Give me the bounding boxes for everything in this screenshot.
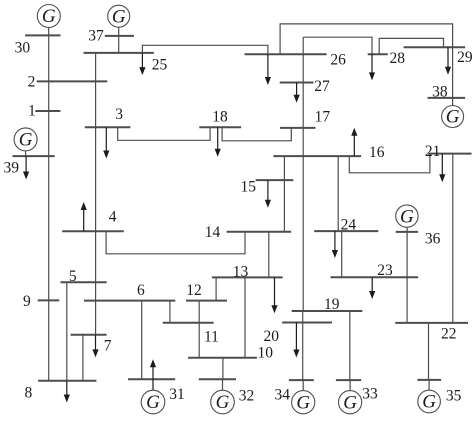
bus 13 — [212, 276, 283, 278]
wire 22-35 — [428, 323, 430, 380]
svg-text:5: 5 — [69, 268, 77, 285]
svg-text:9: 9 — [23, 293, 31, 310]
injection arrow bus 16 — [351, 128, 357, 156]
svg-text:3: 3 — [115, 106, 123, 123]
generator G34 — [292, 391, 315, 414]
load arrow bus 23 — [369, 277, 375, 299]
svg-text:35: 35 — [446, 387, 462, 404]
injection arrow generator31 — [150, 359, 156, 390]
svg-text:G: G — [400, 206, 414, 227]
generator G33 — [339, 391, 362, 414]
wire 10-32 — [222, 358, 224, 380]
svg-text:39: 39 — [4, 159, 20, 176]
wire 21-22 — [452, 154, 454, 323]
bus 23 — [331, 276, 419, 278]
load arrow bus 28 — [369, 54, 375, 80]
bus 10 — [188, 357, 257, 359]
wire 6-31 — [141, 301, 143, 380]
svg-text:G: G — [216, 392, 230, 413]
svg-text:G: G — [446, 107, 460, 128]
svg-text:28: 28 — [390, 50, 406, 67]
bus 17 — [280, 127, 315, 129]
svg-text:26: 26 — [330, 52, 346, 69]
svg-text:13: 13 — [233, 264, 249, 281]
bus 3 — [85, 126, 131, 128]
load arrow bus 21 — [439, 154, 445, 183]
wire 16-15-14 — [283, 156, 285, 232]
bus 33 — [336, 379, 361, 381]
wire 26-29 — [280, 24, 453, 54]
wire 25-2-3-4-5-6-7 trunk — [95, 53, 97, 335]
wire generator32 link — [222, 379, 224, 390]
generator G37 — [108, 5, 130, 27]
wire 7-8 — [82, 335, 84, 381]
bus 37 — [105, 35, 134, 37]
svg-text:34: 34 — [275, 387, 291, 404]
svg-text:10: 10 — [258, 344, 274, 361]
svg-text:4: 4 — [109, 209, 117, 226]
svg-text:31: 31 — [169, 386, 185, 403]
svg-text:17: 17 — [315, 108, 331, 125]
injection arrow bus 4 — [81, 202, 87, 231]
bus 31 — [128, 378, 175, 380]
wire 29-38 — [452, 47, 454, 98]
wire generator39 link — [25, 151, 27, 156]
wire generator33 link — [349, 380, 351, 391]
svg-text:37: 37 — [88, 27, 104, 44]
load arrow bus 26 — [265, 54, 271, 85]
bus 4 — [62, 230, 124, 232]
wire 12-11-10 — [198, 301, 200, 358]
wire 17-18 — [222, 127, 291, 141]
wire 3-18 — [118, 127, 210, 140]
load arrow bus 3 — [103, 127, 109, 158]
wire generator34 link — [302, 380, 304, 391]
svg-text:27: 27 — [314, 78, 330, 95]
svg-text:25: 25 — [152, 56, 168, 73]
bus 24 — [314, 230, 378, 232]
bus 6 — [84, 300, 175, 302]
svg-text:21: 21 — [425, 143, 441, 160]
wire generator35 link — [428, 380, 430, 391]
svg-text:1: 1 — [28, 103, 36, 120]
svg-text:11: 11 — [204, 329, 219, 346]
generator G35 — [418, 390, 441, 413]
bus 1 — [35, 110, 60, 112]
svg-text:2: 2 — [28, 74, 36, 91]
bus 5 — [61, 281, 107, 283]
wire 14-13 — [268, 232, 270, 278]
svg-text:30: 30 — [15, 39, 31, 56]
bus 15 — [256, 179, 294, 181]
svg-text:12: 12 — [186, 282, 202, 299]
svg-text:16: 16 — [369, 144, 385, 161]
wire 26-28 — [302, 37, 304, 54]
load arrow bus 25 — [139, 53, 145, 75]
bus 39 — [13, 155, 55, 157]
bus 20 — [282, 322, 332, 324]
bus 19 — [292, 310, 363, 312]
load arrow bus 7 — [92, 335, 98, 358]
load arrow bus 24 — [332, 231, 338, 258]
svg-text:G: G — [146, 392, 160, 413]
bus 22 — [395, 322, 468, 324]
bus 29 — [404, 46, 466, 48]
svg-text:24: 24 — [341, 216, 357, 233]
wire 19-20-34 — [302, 311, 304, 380]
svg-text:29: 29 — [457, 49, 473, 66]
wire 13-12 — [215, 277, 217, 300]
load arrow bus 39 — [23, 156, 29, 179]
wire 13-10 — [244, 277, 246, 357]
load arrow bus 8 — [64, 381, 70, 403]
wire 5-8 — [66, 282, 68, 381]
wire 19-33 — [349, 311, 351, 380]
generator G32 — [211, 390, 235, 414]
wire 16-24 — [337, 156, 339, 231]
generator G30 — [37, 5, 60, 28]
bus 9 — [38, 299, 60, 301]
svg-text:22: 22 — [441, 326, 457, 343]
svg-text:19: 19 — [324, 296, 340, 313]
bus 30 — [25, 34, 60, 36]
wire 36-23-22 — [406, 232, 408, 323]
bus 25 — [84, 52, 154, 54]
wire 30-2-1-39-9-8 trunk — [48, 27, 50, 381]
load arrow bus 20 — [293, 323, 299, 358]
bus 38 — [428, 97, 466, 99]
bus 12 — [186, 300, 227, 302]
wire generator36 link — [406, 227, 408, 232]
svg-text:18: 18 — [212, 109, 228, 126]
svg-text:33: 33 — [362, 386, 378, 403]
svg-text:20: 20 — [264, 328, 280, 345]
svg-text:36: 36 — [425, 231, 441, 248]
generator G31 — [141, 390, 165, 414]
svg-text:23: 23 — [377, 262, 393, 279]
bus 16 — [273, 155, 361, 157]
bus 18 — [199, 126, 241, 128]
load arrow bus 13 — [271, 277, 277, 313]
wire 26-28 top run — [303, 37, 372, 54]
load arrow bus 15 — [265, 180, 271, 208]
wire generator37-37-25 link — [118, 27, 120, 53]
wire 6-11 — [169, 301, 171, 323]
wire 25-26 — [142, 45, 268, 54]
load arrow bus 18 — [215, 127, 221, 157]
svg-text:6: 6 — [137, 282, 145, 299]
bus 14 — [227, 231, 292, 233]
svg-text:8: 8 — [25, 385, 33, 402]
svg-text:15: 15 — [241, 178, 257, 195]
bus 11 — [163, 322, 214, 324]
bus 32 — [199, 378, 236, 380]
wire 28-29 — [379, 38, 443, 54]
svg-text:G: G — [112, 6, 126, 27]
bus 21 — [429, 153, 472, 155]
svg-text:7: 7 — [104, 338, 112, 355]
bus 27 — [280, 82, 314, 84]
bus 34 — [289, 379, 314, 381]
load arrow bus 29 — [445, 47, 451, 74]
generator G38 — [442, 106, 464, 128]
generator G36 — [396, 205, 418, 227]
bus 26 — [245, 53, 327, 55]
svg-text:14: 14 — [205, 224, 221, 241]
wire generator38 link — [452, 98, 454, 106]
bus 7 — [71, 334, 107, 336]
svg-text:G: G — [19, 130, 33, 151]
wire 16-21 — [349, 154, 430, 173]
bus 36 — [396, 231, 418, 233]
wire 4-14 — [106, 231, 245, 254]
bus 28 — [368, 53, 388, 55]
svg-text:32: 32 — [239, 388, 255, 405]
svg-text:38: 38 — [432, 83, 448, 100]
svg-text:G: G — [42, 6, 56, 27]
svg-text:G: G — [343, 392, 357, 413]
svg-text:G: G — [296, 392, 310, 413]
generator G39 — [14, 128, 37, 151]
wire 26-27-17-16-19 trunk — [302, 54, 304, 311]
wire 23-24 — [341, 231, 343, 277]
bus 8 — [38, 380, 96, 382]
bus 2 — [37, 80, 108, 82]
svg-text:G: G — [422, 392, 436, 413]
bus 35 — [417, 379, 441, 381]
load arrow bus 27 — [294, 83, 300, 103]
